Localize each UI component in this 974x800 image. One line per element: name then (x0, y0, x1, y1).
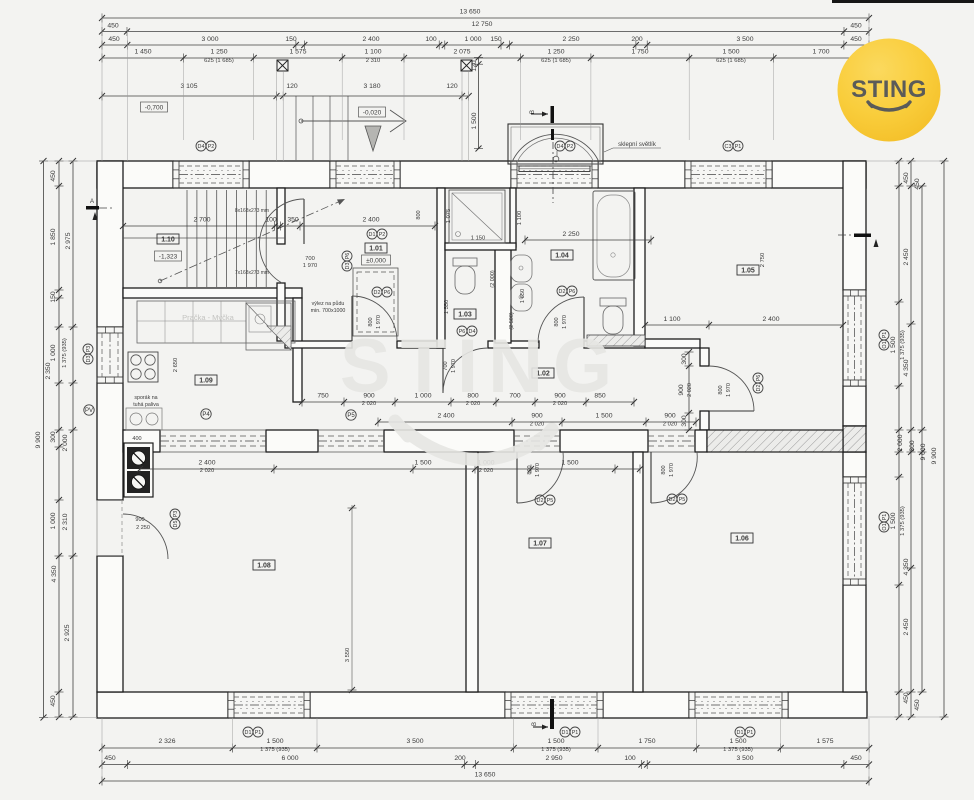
svg-text:900: 900 (678, 384, 685, 396)
svg-text:2 250: 2 250 (136, 525, 150, 531)
svg-text:1 970: 1 970 (726, 383, 732, 397)
svg-text:2 250: 2 250 (562, 231, 579, 238)
svg-text:12 750: 12 750 (472, 21, 493, 28)
svg-text:450: 450 (914, 178, 921, 190)
svg-text:P6: P6 (384, 290, 391, 296)
svg-text:120: 120 (286, 83, 298, 90)
svg-text:1 650: 1 650 (520, 289, 526, 304)
svg-text:1.01: 1.01 (369, 246, 383, 253)
svg-text:D2: D2 (537, 498, 544, 504)
svg-text:1.05: 1.05 (741, 268, 755, 275)
svg-text:1 500: 1 500 (890, 336, 897, 353)
svg-text:400: 400 (132, 436, 141, 442)
svg-text:150: 150 (285, 36, 297, 43)
svg-text:P4: P4 (202, 412, 210, 418)
svg-text:O1: O1 (882, 341, 888, 348)
svg-text:P1: P1 (882, 332, 888, 339)
svg-text:P1: P1 (255, 730, 262, 736)
svg-text:P6: P6 (569, 289, 576, 295)
svg-text:800: 800 (527, 465, 533, 474)
svg-text:1 375 (935): 1 375 (935) (723, 747, 753, 753)
svg-text:3 500: 3 500 (736, 36, 753, 43)
svg-text:tuhá paliva: tuhá paliva (133, 402, 159, 408)
svg-text:2 750: 2 750 (760, 253, 766, 268)
svg-text:1.06: 1.06 (735, 536, 749, 543)
svg-text:D2: D2 (374, 290, 381, 296)
svg-text:D5: D5 (173, 521, 179, 528)
svg-text:P5: P5 (547, 498, 554, 504)
svg-text:-0,020: -0,020 (363, 110, 382, 117)
svg-text:2 310: 2 310 (62, 513, 69, 530)
svg-text:1 100: 1 100 (364, 49, 381, 56)
svg-text:1 575: 1 575 (289, 49, 306, 56)
svg-text:900: 900 (135, 517, 144, 523)
svg-text:4 350: 4 350 (903, 359, 910, 376)
svg-text:P3: P3 (86, 346, 92, 353)
svg-text:450: 450 (108, 36, 120, 43)
svg-text:3 500: 3 500 (736, 755, 753, 762)
svg-text:2 400: 2 400 (762, 316, 779, 323)
svg-text:1 500: 1 500 (547, 738, 564, 745)
svg-text:350: 350 (287, 217, 299, 224)
svg-text:1 000: 1 000 (464, 36, 481, 43)
svg-text:450: 450 (903, 692, 910, 704)
svg-text:D2: D2 (559, 289, 566, 295)
svg-text:2 020: 2 020 (687, 383, 693, 397)
svg-text:B: B (532, 722, 538, 726)
svg-text:2 925: 2 925 (64, 624, 71, 641)
svg-text:9 900: 9 900 (931, 447, 938, 464)
svg-text:D2: D2 (669, 497, 676, 503)
svg-text:4 350: 4 350 (51, 565, 58, 582)
svg-text:1.09: 1.09 (199, 378, 213, 385)
svg-text:450: 450 (914, 699, 921, 711)
svg-text:1 575: 1 575 (816, 738, 833, 745)
svg-text:2 020: 2 020 (479, 468, 494, 474)
svg-text:1 500: 1 500 (595, 413, 612, 420)
svg-text:P5: P5 (347, 413, 355, 419)
svg-text:800: 800 (661, 465, 667, 474)
svg-text:1.08: 1.08 (257, 563, 271, 570)
svg-text:625 (1 685): 625 (1 685) (204, 58, 234, 64)
svg-text:450: 450 (850, 755, 862, 762)
svg-text:1 250: 1 250 (210, 49, 227, 56)
svg-text:625 (1 685): 625 (1 685) (541, 58, 571, 64)
svg-text:2 310: 2 310 (366, 58, 381, 64)
svg-text:1 500: 1 500 (890, 512, 897, 529)
svg-text:1 700: 1 700 (812, 49, 829, 56)
svg-text:3 000: 3 000 (201, 36, 218, 43)
svg-text:2 000: 2 000 (62, 434, 69, 451)
svg-text:1 150: 1 150 (471, 236, 486, 242)
svg-text:D1: D1 (737, 730, 744, 736)
svg-text:STING: STING (340, 324, 622, 409)
svg-text:PV: PV (85, 408, 93, 414)
svg-text:150: 150 (50, 291, 57, 303)
svg-text:1 375 (935): 1 375 (935) (900, 506, 906, 536)
svg-text:100: 100 (425, 36, 437, 43)
svg-text:800: 800 (718, 385, 724, 394)
svg-text:150: 150 (490, 36, 502, 43)
svg-text:1 970: 1 970 (303, 263, 318, 269)
svg-text:750: 750 (317, 393, 329, 400)
svg-text:2 450: 2 450 (903, 618, 910, 635)
svg-text:P6: P6 (756, 375, 762, 382)
svg-text:Pračka - Myčka: Pračka - Myčka (182, 313, 235, 322)
svg-text:2 350: 2 350 (45, 362, 52, 379)
svg-text:1 970: 1 970 (535, 463, 541, 477)
svg-text:P1: P1 (572, 730, 579, 736)
svg-text:2 020: 2 020 (663, 422, 678, 428)
svg-text:7x168x273 mm: 7x168x273 mm (235, 270, 269, 276)
svg-text:B: B (530, 110, 536, 114)
svg-text:100: 100 (624, 755, 636, 762)
svg-text:300: 300 (50, 431, 57, 443)
svg-text:sklepní světlík: sklepní světlík (618, 142, 657, 148)
svg-text:1 100: 1 100 (663, 316, 680, 323)
svg-text:2 075: 2 075 (453, 49, 470, 56)
svg-text:D1: D1 (369, 232, 376, 238)
svg-text:1 100: 1 100 (517, 211, 523, 226)
svg-text:-1,323: -1,323 (159, 254, 178, 261)
svg-text:450: 450 (903, 172, 910, 184)
svg-text:1 375 (935): 1 375 (935) (541, 747, 571, 753)
svg-text:P1: P1 (882, 514, 888, 521)
svg-text:±0,000: ±0,000 (366, 258, 386, 265)
svg-text:450: 450 (850, 23, 862, 30)
svg-text:1 750: 1 750 (631, 49, 648, 56)
svg-text:D4: D4 (198, 144, 205, 150)
svg-text:2 400: 2 400 (437, 413, 454, 420)
svg-text:1 550: 1 550 (444, 300, 450, 315)
svg-text:1 750: 1 750 (638, 738, 655, 745)
svg-text:2 650: 2 650 (173, 358, 179, 373)
svg-text:3 550: 3 550 (345, 648, 351, 663)
svg-text:2 450: 2 450 (903, 248, 910, 265)
svg-text:1 500: 1 500 (722, 49, 739, 56)
svg-text:1.07: 1.07 (533, 541, 547, 548)
svg-text:800: 800 (416, 210, 422, 219)
svg-text:O1: O1 (882, 523, 888, 530)
svg-text:13 650: 13 650 (475, 772, 496, 779)
svg-text:2 326: 2 326 (158, 738, 175, 745)
svg-text:1 250: 1 250 (547, 49, 564, 56)
svg-text:-0,700: -0,700 (145, 105, 164, 112)
svg-text:D2: D2 (756, 385, 762, 392)
svg-text:2 400: 2 400 (362, 36, 379, 43)
svg-text:13 650: 13 650 (460, 9, 481, 16)
svg-text:4 350: 4 350 (903, 558, 910, 575)
svg-text:1 375 (935): 1 375 (935) (260, 747, 290, 753)
svg-text:900: 900 (531, 413, 543, 420)
svg-text:1.03: 1.03 (458, 312, 472, 319)
svg-text:(2 000): (2 000) (490, 270, 496, 288)
svg-text:300: 300 (681, 415, 688, 427)
svg-text:450: 450 (850, 36, 862, 43)
svg-text:3 180: 3 180 (363, 83, 380, 90)
svg-text:200: 200 (454, 755, 466, 762)
svg-text:450: 450 (50, 695, 57, 707)
svg-text:STING: STING (851, 76, 927, 103)
svg-text:6 000: 6 000 (281, 755, 298, 762)
svg-text:1 450: 1 450 (134, 49, 151, 56)
svg-text:9 000: 9 000 (920, 443, 927, 460)
svg-text:výlez na půdu: výlez na půdu (312, 300, 345, 307)
svg-text:D1: D1 (562, 730, 569, 736)
svg-text:8x168x273 mm: 8x168x273 mm (235, 208, 269, 214)
svg-text:P2: P2 (208, 144, 215, 150)
svg-text:900: 900 (664, 413, 676, 420)
svg-text:min. 700x1000: min. 700x1000 (311, 308, 346, 314)
svg-text:1 500: 1 500 (266, 738, 283, 745)
svg-text:625 (1 685): 625 (1 685) (716, 58, 746, 64)
svg-text:1 375 (935): 1 375 (935) (62, 338, 68, 368)
svg-text:450: 450 (50, 170, 57, 182)
svg-text:2 250: 2 250 (562, 36, 579, 43)
svg-text:1 500: 1 500 (561, 460, 578, 467)
svg-text:1 375 (935): 1 375 (935) (900, 330, 906, 360)
svg-text:P3: P3 (173, 511, 179, 518)
svg-text:1 500: 1 500 (414, 460, 431, 467)
svg-text:1 000: 1 000 (50, 344, 57, 361)
svg-text:1 850: 1 850 (50, 228, 57, 245)
svg-text:1 000: 1 000 (50, 512, 57, 529)
svg-text:P2: P2 (379, 232, 386, 238)
svg-text:450: 450 (104, 755, 116, 762)
svg-text:450: 450 (107, 23, 119, 30)
svg-text:P1: P1 (735, 144, 742, 150)
svg-text:1 075: 1 075 (446, 209, 452, 224)
svg-text:2 975: 2 975 (65, 232, 72, 249)
svg-text:D1: D1 (245, 730, 252, 736)
svg-text:700: 700 (305, 256, 315, 262)
svg-text:120: 120 (446, 83, 458, 90)
svg-text:100: 100 (265, 217, 277, 224)
svg-text:D4: D4 (557, 144, 564, 150)
svg-text:300: 300 (681, 353, 688, 365)
svg-text:1.04: 1.04 (555, 253, 569, 260)
svg-text:2 700: 2 700 (193, 217, 210, 224)
svg-text:1 970: 1 970 (669, 463, 675, 477)
svg-text:P2: P2 (567, 144, 574, 150)
svg-text:P1: P1 (747, 730, 754, 736)
svg-text:C3: C3 (725, 144, 732, 150)
svg-text:1 500: 1 500 (471, 112, 478, 129)
svg-text:3 105: 3 105 (180, 83, 197, 90)
svg-text:2 400: 2 400 (362, 217, 379, 224)
svg-text:2 000: 2 000 (897, 434, 904, 451)
svg-text:2 020: 2 020 (530, 422, 545, 428)
svg-text:D3: D3 (345, 263, 351, 270)
svg-text:200: 200 (631, 36, 643, 43)
svg-text:sporák na: sporák na (134, 395, 157, 401)
svg-text:300: 300 (909, 440, 916, 452)
svg-text:120: 120 (471, 60, 478, 72)
svg-text:A: A (90, 199, 94, 205)
svg-text:2 950: 2 950 (545, 755, 562, 762)
svg-text:2 020: 2 020 (200, 468, 215, 474)
svg-text:P5: P5 (679, 497, 686, 503)
svg-text:3 500: 3 500 (406, 738, 423, 745)
svg-text:9 900: 9 900 (35, 431, 42, 448)
svg-text:D3: D3 (86, 356, 92, 363)
svg-text:1.10: 1.10 (161, 237, 175, 244)
svg-text:P6: P6 (345, 253, 351, 260)
svg-text:1 500: 1 500 (729, 738, 746, 745)
svg-text:2 400: 2 400 (198, 460, 215, 467)
